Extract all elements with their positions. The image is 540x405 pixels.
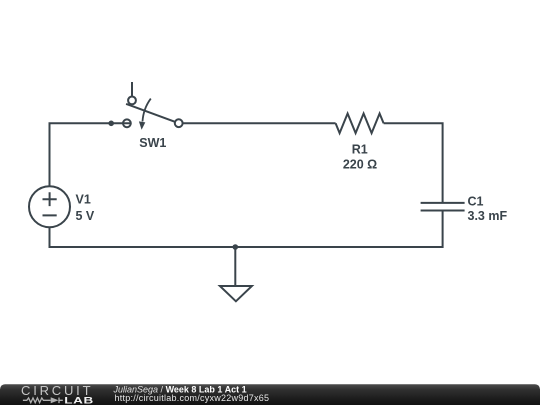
svg-text:LAB: LAB xyxy=(64,396,94,405)
svg-text:R1: R1 xyxy=(352,142,368,156)
svg-text:5 V: 5 V xyxy=(76,209,95,223)
svg-text:V1: V1 xyxy=(76,193,91,207)
svg-text:http://circuitlab.com/cyxw22w9: http://circuitlab.com/cyxw22w9d7x65 xyxy=(115,393,270,403)
svg-text:SW1: SW1 xyxy=(139,136,166,150)
svg-text:3.3 mF: 3.3 mF xyxy=(468,209,508,223)
svg-text:220 Ω: 220 Ω xyxy=(343,157,377,171)
svg-text:C1: C1 xyxy=(468,194,484,208)
